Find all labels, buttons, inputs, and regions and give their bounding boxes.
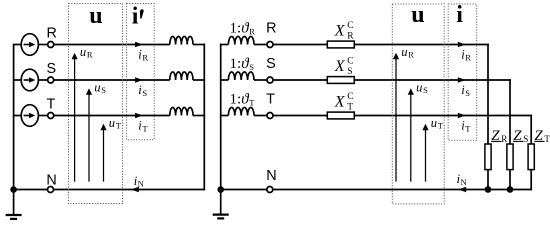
inductor LT: [170, 107, 193, 115]
svg-text:S: S: [142, 88, 147, 98]
wire bus to source R: [13, 44, 22, 46]
transformer coil 1:ϑS: [228, 72, 254, 80]
voltage arrow uS (right): [410, 92, 412, 182]
svg-text:T: T: [116, 121, 122, 131]
voltage arrow uS (left): [88, 92, 90, 182]
junction dot left bus / N: [10, 186, 17, 193]
svg-text:T: T: [47, 97, 56, 113]
wire terminal to reactance XR: [273, 44, 327, 46]
svg-text:R: R: [249, 27, 255, 37]
ground symbol (middle): [220, 190, 222, 215]
AC current source QR (circle with right arrow): [21, 34, 38, 56]
wire R drop to load ZR: [487, 44, 489, 144]
svg-text:T: T: [249, 98, 255, 108]
svg-text:S: S: [47, 61, 57, 77]
terminal node T (left section): [48, 113, 54, 119]
wire bus to transformer coil T: [220, 115, 229, 117]
terminal node T (middle): [267, 113, 273, 119]
svg-text:T: T: [142, 123, 148, 133]
wire source to terminal T: [38, 115, 47, 117]
svg-text:S: S: [523, 134, 528, 144]
svg-text:u: u: [411, 2, 424, 28]
reactance XRC (box): [327, 41, 354, 48]
junction dot ZS / N: [507, 186, 514, 193]
terminal node R (left section): [48, 42, 54, 48]
current arrow iR (right): [458, 42, 466, 48]
svg-text:1:: 1:: [230, 92, 242, 108]
svg-text:u: u: [89, 3, 102, 29]
svg-text:R: R: [347, 32, 354, 42]
phase wire S to inductor: [54, 79, 170, 81]
middle ground bus vertical wire: [220, 44, 222, 190]
svg-text:C: C: [347, 21, 353, 31]
measurement box i′ (left, dotted): [127, 4, 155, 140]
wire coil to terminal S (middle): [254, 79, 267, 81]
load impedance ZS (box): [507, 144, 513, 170]
svg-text:T: T: [347, 103, 353, 113]
measurement box i (right, dotted): [448, 4, 477, 140]
svg-text:N: N: [266, 168, 276, 184]
svg-text:T: T: [438, 121, 444, 131]
transformer coil 1:ϑT: [228, 107, 254, 115]
measurement box u (left, dotted): [69, 4, 123, 204]
wire T drop to load ZT: [530, 115, 532, 144]
left section N return wire: [14, 189, 206, 191]
terminal node N (right section): [267, 187, 273, 193]
wire source to terminal R: [38, 44, 47, 46]
svg-text:S: S: [101, 85, 106, 95]
left source bus vertical wire: [13, 45, 15, 190]
svg-text:R: R: [266, 21, 276, 37]
junction dot ZR / N: [485, 186, 492, 193]
phase wire T to inductor: [54, 115, 170, 117]
ground symbol (left): [13, 190, 15, 216]
wire bus to source T: [13, 115, 22, 117]
phase wire S (right section): [354, 79, 511, 81]
svg-text:S: S: [423, 85, 428, 95]
inductor LS: [170, 72, 193, 80]
svg-text:u: u: [80, 45, 86, 59]
svg-text:C: C: [347, 92, 353, 102]
junction dot middle bus / N / ground: [217, 186, 224, 193]
transformer coil 1:ϑR: [228, 36, 254, 44]
svg-text:1:: 1:: [230, 21, 242, 37]
right section N wire: [221, 189, 532, 191]
wire bus to source S: [13, 79, 22, 81]
current arrow iS (left section): [135, 77, 143, 83]
voltage arrow uR (right): [395, 57, 397, 182]
voltage arrow uT (right): [425, 128, 427, 182]
terminal node S (left section): [48, 77, 54, 83]
wire coil to terminal R (middle): [254, 44, 267, 46]
svg-text:R: R: [47, 26, 57, 42]
svg-text:u: u: [431, 116, 437, 130]
svg-text:i: i: [456, 2, 463, 28]
wire bus to transformer coil S: [220, 79, 229, 81]
left section right bus (inductor common) wire: [203, 44, 205, 190]
svg-text:N: N: [46, 173, 56, 189]
wire coil to terminal T (middle): [254, 115, 267, 117]
svg-text:u: u: [401, 45, 407, 59]
svg-text:T: T: [266, 92, 275, 108]
svg-text:N: N: [461, 177, 467, 187]
svg-text:X: X: [334, 94, 346, 111]
voltage arrow uT (left): [103, 128, 105, 182]
svg-text:R: R: [501, 134, 507, 144]
svg-text:N: N: [138, 179, 144, 189]
reactance XTC (box): [327, 112, 354, 119]
load impedance ZT (box): [528, 144, 534, 170]
svg-text:u: u: [94, 80, 100, 94]
svg-text:S: S: [465, 88, 470, 98]
voltage arrow uR (left): [74, 57, 76, 182]
svg-text:S: S: [347, 67, 352, 77]
terminal node N (left section): [48, 187, 54, 193]
phase wire T (right section): [354, 115, 532, 117]
svg-text:X: X: [334, 23, 346, 40]
svg-text:R: R: [142, 52, 148, 62]
svg-text:R: R: [465, 52, 471, 62]
wire terminal to reactance XT: [273, 115, 327, 117]
load impedance ZR (box): [485, 144, 491, 170]
wire inductor T to right bus: [193, 115, 205, 117]
svg-text:i: i: [132, 3, 139, 29]
wire inductor S to right bus: [193, 79, 205, 81]
phase wire R (right section): [354, 44, 489, 46]
wire load ZR to N: [487, 170, 489, 190]
wire inductor R to right bus: [193, 44, 205, 46]
wire load ZT to N: [530, 170, 532, 191]
svg-text:X: X: [334, 58, 346, 75]
svg-text:T: T: [465, 123, 471, 133]
svg-text:R: R: [87, 50, 93, 60]
measurement box u (right, dotted): [392, 4, 444, 204]
terminal node S (middle): [267, 77, 273, 83]
terminal node R (middle): [267, 42, 273, 48]
svg-text:T: T: [544, 134, 550, 144]
wire S drop to load ZS: [509, 79, 511, 144]
svg-text:C: C: [347, 56, 353, 66]
current arrow iT (left section): [135, 113, 143, 119]
reactance XSC (box): [327, 77, 354, 84]
svg-text:u: u: [109, 116, 115, 130]
wire bus to transformer coil R: [220, 44, 229, 46]
svg-text:S: S: [249, 62, 254, 72]
current arrow iT (right): [458, 113, 466, 119]
inductor LR: [170, 36, 193, 44]
svg-text:1:: 1:: [230, 56, 242, 72]
wire load ZS to N: [509, 170, 511, 190]
current arrow iN (left, pointing left): [131, 187, 139, 193]
AC current source QT (circle with right arrow): [21, 105, 38, 127]
current arrow iS (right): [458, 77, 466, 83]
AC current source QS (circle with right arrow): [21, 69, 38, 91]
wire source to terminal S: [38, 79, 47, 81]
current arrow iN (right, pointing left): [458, 187, 466, 193]
wire terminal to reactance XS: [273, 79, 327, 81]
svg-text:R: R: [408, 50, 414, 60]
svg-text:S: S: [266, 56, 276, 72]
svg-text:u: u: [416, 80, 422, 94]
phase wire R to inductor: [54, 44, 170, 46]
current arrow iR (left section): [135, 42, 143, 48]
